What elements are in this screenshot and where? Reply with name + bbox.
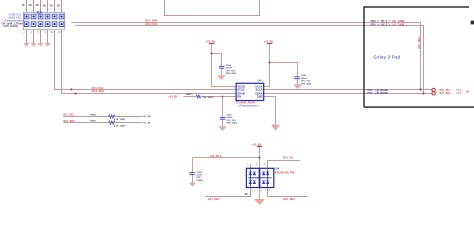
svg-text:17.4: 17.4 bbox=[456, 92, 461, 95]
svg-text:PD9: PD9 bbox=[371, 24, 376, 27]
svg-text:I2C0B: I2C0B bbox=[380, 91, 387, 95]
svg-text:C016: C016 bbox=[301, 75, 307, 77]
svg-text:10%_16V: 10%_16V bbox=[227, 120, 237, 122]
svg-text:0.1uF: 0.1uF bbox=[196, 175, 202, 177]
svg-text:4.7K_100R: 4.7K_100R bbox=[114, 124, 125, 127]
svg-text:AZC099-04S_R7G: AZC099-04S_R7G bbox=[275, 171, 295, 174]
svg-text:3B: 3B bbox=[36, 4, 39, 7]
svg-text:R048: R048 bbox=[90, 113, 96, 116]
svg-text:10%_16V: 10%_16V bbox=[301, 81, 311, 83]
svg-text:4B: 4B bbox=[50, 4, 53, 7]
svg-text:4.7K_100R: 4.7K_100R bbox=[114, 118, 125, 121]
svg-text:C106: C106 bbox=[196, 172, 202, 174]
svg-text:+V3_3B: +V3_3B bbox=[206, 40, 216, 44]
svg-text:B6_3: B6_3 bbox=[381, 24, 388, 27]
svg-text:X5R_0402: X5R_0402 bbox=[227, 122, 238, 125]
svg-text:4B: 4B bbox=[43, 4, 46, 7]
svg-text:3B: 3B bbox=[29, 4, 32, 7]
svg-text:H1_3B: H1_3B bbox=[143, 116, 150, 118]
svg-text:I2C1_SDA: I2C1_SDA bbox=[439, 92, 451, 95]
svg-text:3B: 3B bbox=[22, 4, 25, 7]
svg-text:C015: C015 bbox=[227, 114, 233, 116]
svg-text:I2C1_SDA: I2C1_SDA bbox=[418, 37, 421, 49]
svg-text:X5R_0402: X5R_0402 bbox=[226, 72, 237, 75]
svg-text:I2C1_SDA: I2C1_SDA bbox=[92, 89, 105, 93]
svg-text:3B: 3B bbox=[245, 194, 248, 196]
svg-text:R049: R049 bbox=[90, 120, 96, 123]
svg-text:+V3_3B: +V3_3B bbox=[168, 96, 177, 99]
svg-text:I2C1_SDA: I2C1_SDA bbox=[208, 198, 220, 201]
svg-text:4B: 4B bbox=[57, 4, 60, 7]
svg-text:I2C1_SCL: I2C1_SCL bbox=[146, 22, 159, 26]
svg-text:100nF: 100nF bbox=[301, 78, 308, 80]
svg-text:I2C1_SDA: I2C1_SDA bbox=[145, 19, 158, 23]
svg-text:I2C1_SCL: I2C1_SCL bbox=[63, 114, 75, 117]
svg-text:C0402: C0402 bbox=[196, 179, 203, 182]
svg-text:X5R: X5R bbox=[196, 177, 201, 179]
svg-text:+V3_3B_E: +V3_3B_E bbox=[210, 155, 222, 158]
svg-text:X5R_0402: X5R_0402 bbox=[301, 82, 312, 85]
svg-text:100nF: 100nF bbox=[227, 117, 234, 119]
svg-text:CAP_150mil: CAP_150mil bbox=[4, 25, 19, 28]
svg-text:I2C1_SDA: I2C1_SDA bbox=[63, 120, 75, 123]
svg-text:GND: GND bbox=[257, 95, 263, 99]
svg-text:+V3_3B: +V3_3B bbox=[264, 40, 274, 44]
svg-text:100nF: 100nF bbox=[226, 68, 233, 70]
svg-text:25L_100M: 25L_100M bbox=[392, 24, 404, 27]
svg-text:I2C1_SDA: I2C1_SDA bbox=[283, 198, 295, 201]
svg-text:I2C1_SCL: I2C1_SCL bbox=[283, 157, 295, 160]
svg-text:PD7: PD7 bbox=[367, 91, 373, 95]
svg-text:U24: U24 bbox=[275, 168, 280, 171]
svg-text:EN: EN bbox=[237, 95, 241, 99]
svg-text:H1_3B: H1_3B bbox=[143, 123, 150, 125]
svg-text:C014: C014 bbox=[226, 64, 232, 67]
svg-text:SCLB: SCLB bbox=[237, 88, 244, 92]
svg-text:10%_16V: 10%_16V bbox=[226, 70, 236, 72]
svg-text:Golay 3 Pad: Golay 3 Pad bbox=[373, 55, 400, 60]
svg-text:J10: J10 bbox=[36, 11, 42, 15]
svg-text:SCLA: SCLA bbox=[255, 88, 262, 92]
svg-text:10k_100R: 10k_100R bbox=[203, 97, 214, 99]
svg-text:<Characteristics>: <Characteristics> bbox=[238, 104, 260, 107]
svg-text:+V3_3B: +V3_3B bbox=[252, 142, 262, 146]
